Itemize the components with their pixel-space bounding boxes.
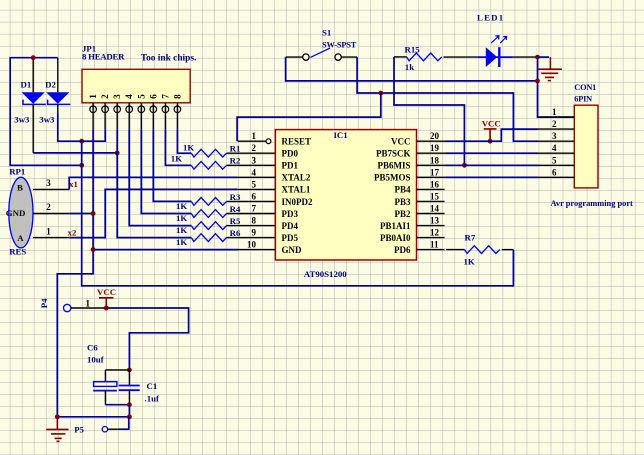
R3 lead to IC [227,200,276,202]
svg-text:.1uf: .1uf [145,394,160,404]
svg-text:RESET: RESET [282,137,312,147]
svg-text:1: 1 [552,107,557,117]
svg-text:8 HEADER: 8 HEADER [82,52,125,62]
IC1 pin 14 line [417,213,445,215]
capacitor C6 plates [94,382,117,387]
IC1 pin 18 line [417,164,447,166]
svg-text:3w3: 3w3 [14,115,30,125]
wire R15 to PB6 net [394,57,464,165]
wire JP1 pin4 to R5 [129,129,191,225]
LED LED1 symbol [478,56,513,58]
junction D1 to JP1 pin3 wire [115,151,120,156]
CON1 pin 4 line [537,152,574,154]
resistor R6 [191,234,226,242]
svg-text:P5: P5 [74,424,84,434]
svg-text:20: 20 [430,131,440,141]
svg-text:PB0AI0: PB0AI0 [380,233,411,243]
svg-text:R5: R5 [230,216,241,226]
R7 right lead [502,249,514,251]
svg-text:15: 15 [430,191,440,201]
wire x1 to XTAL2 [69,177,237,189]
resistor R1 [191,149,226,157]
svg-text:11: 11 [430,240,439,250]
RP1 pin 2 stub [33,213,69,215]
svg-text:17: 17 [430,167,440,177]
wire PB6MIS to CON1 pin5 [446,164,538,166]
svg-text:XTAL1: XTAL1 [282,185,311,195]
svg-text:R7: R7 [465,233,476,243]
svg-text:1: 1 [252,131,257,141]
JP1 pin 5 stub [140,103,142,130]
zener diode D1 [22,92,45,104]
IC1 pin 4 line [238,176,276,178]
svg-text:2: 2 [252,143,257,153]
svg-text:VCC: VCC [97,287,116,297]
ground power port (top) [538,57,562,81]
svg-text:R4: R4 [230,204,241,214]
connector JP1 body [82,69,190,103]
svg-text:R2: R2 [230,156,241,166]
svg-text:PD0: PD0 [282,149,299,159]
svg-text:4: 4 [552,143,557,153]
svg-text:14: 14 [430,204,440,214]
wire P4 VCC to caps [103,308,189,370]
wire PB5MOS to CON1 pin6 [446,176,538,178]
junction RP1 GND [91,211,96,216]
svg-text:PD5: PD5 [282,233,299,243]
R15 right lead to LED [443,56,478,58]
JP1 pin 2 stub [104,103,106,130]
svg-text:5: 5 [136,94,146,99]
JP1 pin 4 stub [128,103,130,130]
wire GND rail to IC pin 10 [93,249,238,251]
CON1 pin 2 line [537,128,574,130]
svg-text:1: 1 [86,298,91,308]
junction D1 anode [31,55,36,60]
svg-text:R3: R3 [230,192,241,202]
R5 lead to IC [227,225,276,227]
svg-text:R1: R1 [230,144,241,154]
svg-text:1k: 1k [405,62,414,72]
svg-text:13: 13 [430,216,440,226]
svg-text:x2: x2 [68,227,77,237]
junction rail at LED net [535,79,540,84]
svg-text:1: 1 [88,94,98,99]
wire x2 to XTAL1 [69,189,237,237]
svg-text:GND: GND [6,208,26,218]
wire JP1 pin5 to R4 [141,129,191,213]
svg-text:PD4: PD4 [282,221,299,231]
svg-text:VCC: VCC [482,119,501,129]
R15 left lead [394,56,407,58]
svg-text:RES: RES [9,247,26,257]
wire to IC RESET [237,93,381,141]
svg-text:LED1: LED1 [477,12,504,22]
RP1 pin 1 stub [33,237,69,239]
svg-text:6: 6 [552,167,557,177]
junction LED cathode [535,55,540,60]
wire PB7SCK to CON1 pin4 [446,152,538,154]
junction GND rail [91,247,96,252]
svg-text:1K: 1K [183,143,194,153]
wire A / PD6 return [82,141,514,286]
C1 bottom pin [128,390,130,405]
svg-text:D1: D1 [21,80,32,90]
svg-text:19: 19 [430,143,440,153]
wire JP1 pin6 to R3 [153,129,191,201]
switch S1 contacts and lever [303,54,309,60]
svg-text:10uf: 10uf [87,354,105,364]
IC1 pin 15 line [417,200,445,202]
svg-text:3: 3 [46,178,51,188]
svg-text:7: 7 [160,94,170,99]
JP1 pin 7 stub [164,103,166,130]
IC1 pin 1 RESET line with bubble [238,140,266,142]
svg-text:RP1: RP1 [9,166,25,176]
zener diode D2 [46,92,69,104]
svg-text:PB2: PB2 [394,209,411,219]
CON1 pin 1 line [537,116,574,118]
svg-text:B: B [17,182,23,192]
wire stub to ground port [538,56,550,58]
port P5 circle [102,427,107,432]
svg-text:6PIN: 6PIN [574,95,592,104]
svg-text:PB4: PB4 [394,185,411,195]
resistor R2 [191,161,226,169]
svg-text:1: 1 [46,226,51,236]
svg-text:Avr programming port: Avr programming port [551,199,634,208]
R1 lead to IC [227,152,276,154]
JP1 pin 8 stub [176,103,178,130]
svg-text:D2: D2 [45,80,56,90]
svg-text:S1: S1 [322,28,331,38]
resistor R3 [191,197,226,205]
svg-text:3w3: 3w3 [39,115,55,125]
RP1 pin 3 stub [33,188,69,190]
resistor R7 [465,246,500,254]
svg-text:1K: 1K [176,225,187,235]
junction caps top [127,368,132,373]
svg-text:R6: R6 [230,228,241,238]
wire C6 bottom to C1 bottom [105,404,129,406]
LED1 cathode lead [513,56,538,58]
svg-text:8: 8 [252,216,257,226]
junction S1 reset branch [378,91,383,96]
svg-text:3: 3 [112,94,122,99]
svg-text:PB7SCK: PB7SCK [376,149,411,159]
junction P5 [127,414,132,419]
VCC top bar and stem [484,129,497,141]
IC1 pin 20 line [417,140,447,142]
junction VCC on P4 wire [104,306,109,311]
svg-text:7: 7 [252,204,257,214]
svg-text:x1: x1 [69,179,78,189]
resistor R5 [191,222,226,230]
resistor R4 [191,210,226,218]
svg-text:8: 8 [172,94,182,99]
wire VCC pin20 to CON1 pin2 [446,129,538,141]
svg-text:P4: P4 [39,298,49,308]
svg-text:18: 18 [430,155,440,165]
svg-text:2: 2 [552,119,557,129]
wire D1 cathode pin [32,104,34,152]
svg-text:16: 16 [430,179,440,189]
IC1 pin 5 line [238,188,276,190]
wire diode anode top rail [10,58,82,166]
wire JP1 pin3 to R6 [117,129,191,237]
svg-text:6: 6 [252,191,257,201]
wire D2 cathode to JP1 pin2 [58,114,105,142]
svg-text:PD1: PD1 [282,161,299,171]
wire D2 cathode pin [57,104,59,113]
svg-text:R15: R15 [405,45,421,55]
C1 top pin [128,370,130,386]
wire S1 right to CON1 pin3 [357,57,537,141]
port P4 circle [63,304,70,311]
C6 top connector [105,369,129,371]
svg-text:IC1: IC1 [334,130,348,140]
svg-text:1K: 1K [176,237,187,247]
svg-text:PD6: PD6 [394,245,411,255]
S1 left lead [286,56,303,58]
svg-text:4: 4 [252,167,257,177]
R6 lead to IC [227,237,276,239]
IC1 pin 13 line [417,225,445,227]
CON1 pin 6 line [537,176,574,178]
VCC bottom bar and stem [99,298,114,308]
P5 stub [108,428,119,430]
junction wire A top [79,139,84,144]
connector CON1 body [574,105,598,188]
svg-text:IN0PD2: IN0PD2 [282,197,313,207]
resistor R15 [407,53,442,61]
wire caps to ground rail [57,405,129,417]
junction caps bottom [127,402,132,407]
svg-text:PB1AI1: PB1AI1 [380,221,411,231]
R2 lead to IC [227,164,276,166]
svg-text:AT90S1200: AT90S1200 [304,269,347,279]
svg-text:1K: 1K [176,201,187,211]
svg-text:1K: 1K [176,213,187,223]
JP1 pin 1 stub [92,103,94,130]
junction rail to wire A [79,163,84,168]
svg-text:2: 2 [46,202,51,212]
svg-text:VCC: VCC [391,137,411,147]
svg-text:3: 3 [252,155,257,165]
svg-text:PD3: PD3 [282,209,299,219]
C6 bottom pin [104,391,106,405]
svg-text:1K: 1K [464,256,475,266]
svg-text:12: 12 [430,228,440,238]
svg-text:XTAL2: XTAL2 [282,173,311,183]
svg-text:PB6MIS: PB6MIS [377,161,410,171]
P4 stub [71,307,103,309]
svg-text:C1: C1 [147,381,158,391]
svg-text:1K: 1K [171,153,182,163]
capacitor C1 plates [119,385,140,387]
IC U1 body AT90S1200 [275,130,416,260]
IC1 pin 17 line [417,176,447,178]
junction VCC on pin20 wire [488,139,493,144]
CON1 pin 3 line [537,140,574,142]
wire JP1 pin1 GND net [57,129,93,417]
JP1 pin 6 stub [152,103,154,130]
wire JP1 pin7 to R2 [165,129,191,165]
R7 left lead [446,249,465,251]
CON1 pin 5 line [537,164,574,166]
IC1 pin 19 line [417,152,447,154]
JP1 pin 3 stub [116,103,118,130]
wire JP1 pin8 to R1 [177,129,191,153]
svg-text:Too ink chips.: Too ink chips. [141,54,197,64]
IC1 pin 10 line [238,249,276,251]
wire LED cathode down to CON1 pin1 [538,57,575,117]
S1 right lead [341,56,357,58]
svg-text:6: 6 [148,94,158,99]
svg-text:5: 5 [552,155,557,165]
wire P5 to rail [119,417,129,429]
svg-text:10: 10 [247,240,257,250]
junction ground [55,414,60,419]
svg-text:3: 3 [552,131,557,141]
svg-text:PB5MOS: PB5MOS [374,173,411,183]
wire RP1 GND pin to wire B [69,213,93,215]
IC1 pin 11 line [417,249,445,251]
svg-text:A: A [17,233,24,243]
svg-text:5: 5 [252,179,257,189]
ground power port (bottom) [46,417,68,442]
R4 lead to IC [227,213,276,215]
wire S1 left to LED cathode rail [286,57,537,81]
junction PB6 net [462,163,467,168]
svg-text:SW-SPST: SW-SPST [322,41,357,50]
svg-text:PB3: PB3 [394,197,411,207]
svg-text:CON1: CON1 [574,83,596,92]
resistor-pack RP1 body [9,177,33,248]
svg-text:2: 2 [100,94,110,99]
LED1 arrows [491,36,499,43]
svg-text:9: 9 [252,228,257,238]
C6 top pin [104,370,106,382]
IC1 pin 12 line [417,237,445,239]
svg-text:4: 4 [124,94,134,99]
IC1 pin 16 line [417,188,445,190]
wire D1 cathode to pin3 net [33,152,117,154]
svg-text:GND: GND [282,245,303,255]
svg-text:C6: C6 [87,343,98,353]
